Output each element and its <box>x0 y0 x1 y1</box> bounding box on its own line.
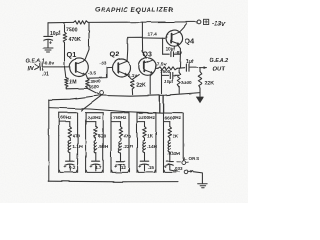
resistor 3300 output shunt <box>178 73 181 87</box>
transistor Q3 <box>139 58 156 75</box>
voltage label -7.5v Q3 node <box>155 62 166 68</box>
value label 1M <box>69 79 76 85</box>
value label 7500 output <box>160 69 171 74</box>
value label .033H <box>167 151 180 157</box>
switch contact L <box>177 158 188 165</box>
wire output node <box>177 67 185 70</box>
wire 60Hz filter cap to box bottom <box>69 165 71 171</box>
resistor 470 750Hz filter <box>119 127 122 139</box>
wire 1M to bottom junction <box>65 88 67 89</box>
wire 2200Hz filter inductor to cap <box>144 153 146 161</box>
value label 5500 <box>89 84 100 89</box>
value label 470 60Hz filter <box>72 133 80 138</box>
voltage label -8v Q4 emitter <box>175 50 182 56</box>
value label 8.2 60Hz filter <box>69 165 76 170</box>
wire switch to ground <box>193 172 202 183</box>
resistor 1M bias <box>64 78 68 88</box>
inductor 1.1H 60Hz filter <box>68 141 71 153</box>
wire base node to 1M <box>65 67 66 78</box>
voltage label 1.1v Q2 emitter <box>128 73 138 79</box>
node 750Hz filter filter box <box>111 113 129 173</box>
wire 240Hz filter stub to chain <box>86 122 96 127</box>
value label .22H 750Hz filter <box>123 144 134 149</box>
wire out node to 22K <box>199 68 201 72</box>
wire rail to collector junction node <box>141 22 143 37</box>
capacitor 1uf output coupling <box>186 64 189 71</box>
wire 22K to bottom wire <box>199 88 201 93</box>
node 240Hz filter filter box <box>86 113 104 173</box>
wire junction to Q3 collector <box>142 37 146 58</box>
value label 3300 <box>181 80 192 85</box>
capacitor .12 750Hz filter <box>114 161 125 170</box>
voltage label -3.5 Q1 emitter <box>88 70 97 76</box>
ground decoupling cap <box>43 48 53 52</box>
label G.E.A.1 input <box>26 58 45 64</box>
wire bank bottom rail <box>49 180 178 183</box>
capacitor 4.7 240Hz filter <box>89 161 100 170</box>
switch pole with blade <box>184 170 193 174</box>
wire cap to switch pole <box>170 165 179 171</box>
value label .59H 240Hz filter <box>98 144 109 149</box>
inductor .59H 240Hz filter <box>94 141 97 153</box>
voltage label -33 Q2 base <box>100 61 107 67</box>
value label 470K <box>69 37 82 43</box>
wire 240Hz filter box bottom bar <box>86 170 102 172</box>
label G.E.A.2 output <box>209 58 228 64</box>
value label 470 750Hz filter <box>123 133 131 138</box>
node 6600Hz filter box <box>164 113 184 173</box>
value label 1K 2200Hz filter <box>147 133 154 138</box>
wire rail to 470K <box>64 23 66 33</box>
wire Q2 emitter node to Q3 base <box>133 75 140 80</box>
wire 750Hz filter box bottom bar <box>112 170 129 172</box>
wire Q4 base node down to bootstrap cap <box>162 38 164 54</box>
wire 60Hz filter inductor to cap <box>69 153 71 161</box>
resistor 22K Q2 emitter <box>131 80 135 89</box>
title text GRAPHIC EQUALIZER <box>95 7 173 14</box>
value label 22K output <box>205 81 215 87</box>
wire emitter chain to 1M bottom <box>66 87 87 89</box>
wire junction to Q2 collector branch <box>128 36 143 38</box>
wire 240Hz filter resistor to inductor <box>95 138 97 141</box>
wire Q4 emitter down <box>177 45 180 54</box>
label 240Hz band <box>87 115 101 121</box>
transistor Q1 <box>70 58 89 77</box>
wire 240Hz filter inductor to cap <box>95 153 97 161</box>
label 750Hz band <box>113 115 127 121</box>
wire 60Hz filter stub to chain <box>59 122 70 127</box>
wire 6600Hz stub to chain <box>164 122 170 127</box>
wire 6600Hz resistor to inductor <box>169 138 171 141</box>
label 2200Hz band <box>139 115 156 121</box>
resistor 820 240Hz filter <box>94 127 97 139</box>
ground arrow bottom right <box>196 93 204 104</box>
label L OR S <box>184 156 199 161</box>
wire 470K to Q1 base node <box>64 43 66 67</box>
wire cap to ground <box>47 40 49 47</box>
transistor Q2 <box>113 59 131 77</box>
value label 10uf feedback <box>164 79 174 84</box>
inductor .033H 6600Hz filter <box>168 141 171 153</box>
wire Q4 collector to rail <box>179 23 187 32</box>
capacitor .033 6600Hz filter <box>164 162 174 171</box>
wire Q2 collector to junction node <box>126 37 129 61</box>
value label 820 240Hz filter <box>98 133 106 138</box>
capacitor 10uf decoupling <box>44 36 53 46</box>
resistor 1K 6600Hz filter <box>168 127 171 139</box>
wire 3300 to bottom wire <box>178 87 180 94</box>
capacitor .15 2200Hz filter <box>138 161 149 170</box>
wire Q1 emitter node to Q2 base <box>89 67 113 78</box>
value label 22K Q2 emitter <box>136 83 146 89</box>
value label 7500 <box>66 27 78 33</box>
label 60Hz band <box>60 115 72 121</box>
wire bottom to bank left <box>49 96 98 100</box>
capacitor 10uf feedback <box>162 72 180 78</box>
wire 60Hz filter resistor to inductor <box>69 138 71 141</box>
wire 240Hz filter cap to box bottom <box>95 165 97 171</box>
wire output node to 3300 <box>178 68 180 73</box>
value label .12 750Hz filter <box>120 165 127 170</box>
wire Q1 emitter to resistor chain <box>86 74 88 78</box>
resistor 470K bias <box>63 33 67 44</box>
value label .15 2200Hz filter <box>148 165 155 170</box>
node 2200Hz filter filter box <box>137 113 156 173</box>
wire 2200Hz filter box bottom bar <box>138 170 156 172</box>
value label 4.7 240Hz filter <box>95 165 102 170</box>
wire 750Hz filter resistor to inductor <box>120 138 122 141</box>
wire junction to bank top <box>82 95 102 110</box>
transistor Q4 <box>166 30 183 47</box>
resistor 470 60Hz filter <box>68 127 71 139</box>
value label 1uf <box>186 59 194 65</box>
value label 3500 <box>90 79 101 84</box>
wire 2200Hz filter cap to box bottom <box>144 165 146 171</box>
wire Q4 emitter to output node <box>179 54 181 68</box>
wire emitter chain to junction bump <box>87 88 98 94</box>
wire -13v supply rail <box>48 21 74 23</box>
wire bottom common <box>99 93 200 97</box>
wire 6600Hz inductor to cap <box>169 153 171 162</box>
wire Q2 emitter to 22K node <box>127 75 132 80</box>
resistor 1K 2200Hz filter <box>143 127 146 139</box>
arrow out <box>200 66 207 69</box>
wire junction to Q4 base <box>142 37 166 39</box>
inductor .14H 2200Hz filter <box>143 141 146 153</box>
voltage label 17.4 Q4 base <box>148 32 158 38</box>
wire 6600Hz box bottom bar <box>164 170 176 172</box>
designator label Q3 <box>143 51 152 58</box>
wire 1uf to out terminal <box>190 67 198 69</box>
value label 1.1H 60Hz filter <box>72 144 83 149</box>
wire 750Hz filter cap to box bottom <box>120 165 122 171</box>
wire Q3 emitter to bottom wire <box>150 73 153 94</box>
wire rail to supply terminal <box>88 21 197 24</box>
designator label Q4 <box>185 37 196 46</box>
wire 2200Hz filter resistor to inductor <box>144 138 146 141</box>
junction bump bottom wire <box>100 91 104 95</box>
wire 750Hz filter stub to chain <box>111 122 121 127</box>
capacitor 8.2 60Hz filter <box>63 161 74 170</box>
wire 750Hz filter inductor to cap <box>120 153 122 161</box>
wire bank top edge <box>49 108 164 114</box>
wire 22K to bottom wire <box>131 89 133 95</box>
inductor .22H 750Hz filter <box>119 141 122 153</box>
value label 10uf decoupling <box>50 31 60 37</box>
value label .14H 2200Hz filter <box>147 144 158 149</box>
value label .01 <box>42 72 49 78</box>
wire rail to decoupling cap <box>47 23 49 36</box>
resistor 22K output load <box>198 72 202 89</box>
resistor 7500 rail series <box>74 21 89 24</box>
resistor 3500-5500 Q1 emitter <box>86 79 90 88</box>
resistor 7500 output series <box>158 67 177 70</box>
wire bank connector left <box>159 96 161 113</box>
wire Q3 node to 7500 <box>156 67 158 69</box>
designator label Q1 <box>67 50 77 59</box>
wire input cap to Q1 base <box>43 66 70 68</box>
wire bank left edge <box>48 100 50 181</box>
ground switch <box>198 184 208 188</box>
wire bank connector right <box>163 96 165 113</box>
value label 10uf bootstrap <box>166 47 176 52</box>
label 6600Hz band <box>165 115 182 121</box>
wire 2200Hz filter stub to chain <box>137 122 145 127</box>
capacitor .01 input coupling <box>40 63 42 70</box>
capacitor 10uf bootstrap <box>163 52 181 57</box>
designator label Q2 <box>110 50 120 59</box>
wire Q1 collector to rail <box>85 23 89 61</box>
label -13v <box>212 20 225 27</box>
terminal -13v supply <box>197 19 209 24</box>
value label 1K 6600Hz <box>173 133 180 138</box>
wire 60Hz filter box bottom bar <box>59 170 77 172</box>
node 60Hz filter filter box <box>59 113 78 173</box>
label OUT <box>213 67 226 73</box>
wire feedback branch down <box>161 69 163 93</box>
label IN with arrow <box>28 64 39 72</box>
voltage label -0.8v Q1 base <box>43 61 54 67</box>
value label .033 <box>174 166 183 171</box>
